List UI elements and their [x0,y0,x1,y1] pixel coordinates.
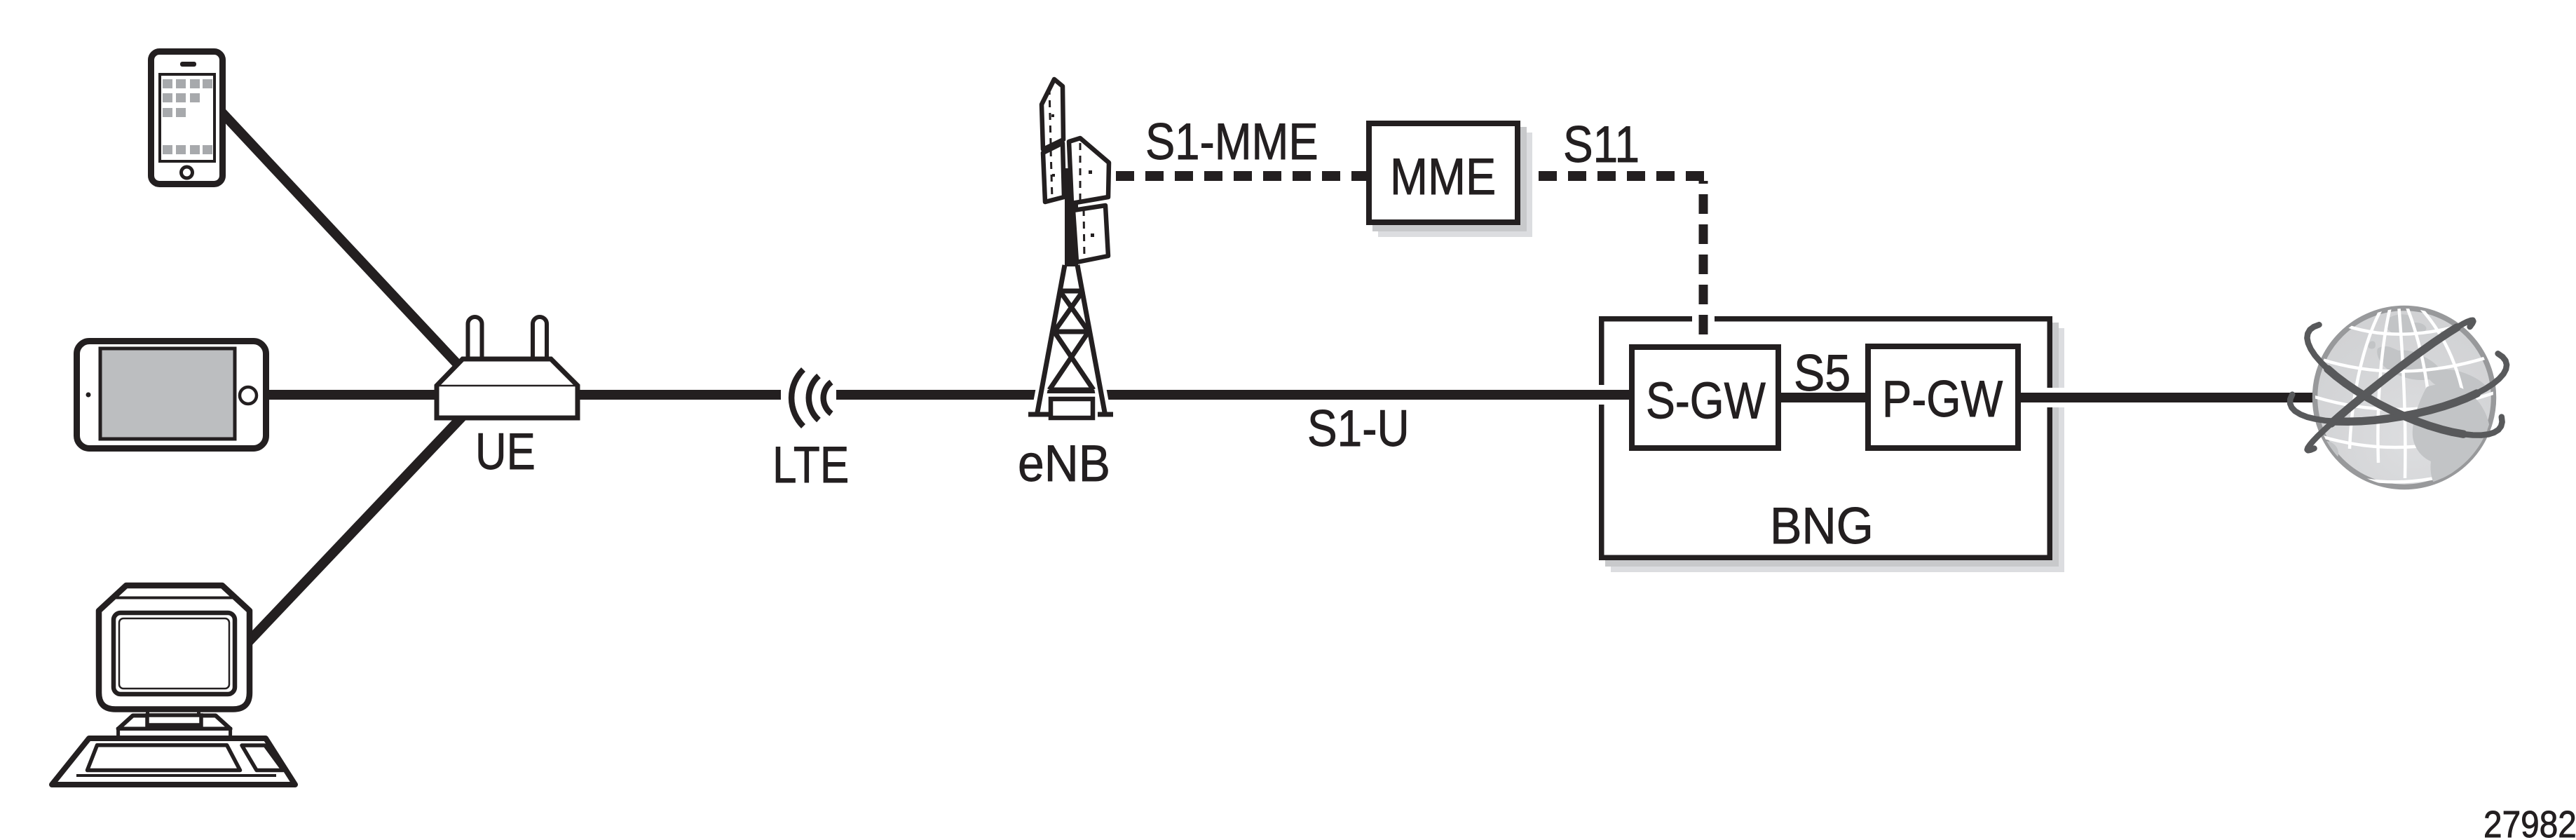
S1-MME dashed wire [1116,171,1366,181]
svg-text:S5: S5 [1794,344,1851,402]
antennas [468,317,482,366]
smartphone [151,52,223,184]
panel upper-left [1042,79,1063,149]
speaker [180,62,196,67]
tablet [77,341,266,449]
home button [240,387,257,404]
white casing where S11 dash crosses BNG top border [1692,311,1715,327]
svg-text:S-GW: S-GW [1646,372,1766,430]
X braces [1060,291,1089,332]
svg-text:UE: UE [475,424,536,480]
MME box [1369,123,1518,222]
svg-text:27982: 27982 [2483,803,2576,840]
body [437,359,578,418]
eNB antenna panels [1042,79,1109,262]
svg-text:LTE: LTE [772,436,849,494]
app icons [163,79,212,154]
neck [146,708,149,716]
desktop computer [52,585,295,785]
LTE radio arcs [791,370,831,426]
screen double border [114,613,235,694]
svg-text:P-GW: P-GW [1882,370,2003,428]
svg-text:BNG: BNG [1770,498,1874,555]
svg-text:MME: MME [1390,147,1496,205]
panel centerline details [1049,88,1084,259]
screen [160,74,214,161]
wire phone to UE [214,104,491,400]
orbit swoosh thick middles [2328,327,2477,434]
key areas [88,745,240,771]
africa land over grid [2413,384,2490,496]
tablet screen [100,348,235,439]
white casings under tower [1028,265,1113,414]
pedestal skirt [118,716,231,729]
wire P-GW to globe [1998,393,2334,402]
wire S5 : S-GW to P-GW [1717,393,1928,402]
BNG box [1602,319,2050,558]
S11 dashed wire horizontal [1520,171,1708,181]
equipment box [1051,399,1093,418]
BNG box shadow [1611,328,2064,572]
svg-text:eNB: eNB [1018,434,1110,492]
keyboard [52,738,295,785]
panel upper-right [1069,138,1109,203]
home button [182,167,193,178]
orbit swooshes [2290,320,2507,451]
bevel crease [114,597,236,599]
land under grid: scandinavia / europe / asia [2317,314,2487,466]
svg-text:S1-MME: S1-MME [1145,113,1318,170]
sphere [2315,309,2494,487]
tower legs [1028,265,1113,414]
pedestal top [147,715,201,725]
UE router [437,317,578,418]
S-GW box [1632,347,1778,448]
panel lower-right [1073,205,1108,262]
panel lower-left [1043,143,1064,202]
tower mast [1065,168,1078,266]
rungs [1060,289,1083,294]
white casing where line crosses BNG right border [2043,388,2068,407]
eNB tower [1028,168,1113,424]
white casing where S1-U crosses BNG left border [1593,385,1607,405]
globe [2290,288,2507,496]
wire UE to LTE gap [561,390,781,400]
svg-text:S1-U: S1-U [1307,400,1410,457]
feet [1028,412,1064,417]
wire tablet to UE [259,390,456,400]
S11 dashed wire vertical [1699,181,1708,344]
monitor body with bevel top [99,585,250,710]
pedestal bar [118,729,231,739]
white grid [2315,288,2497,482]
MME box shadow [1378,133,1532,237]
camera dot [86,393,91,398]
wire S1-U : LTE gap to S-GW [836,390,1682,400]
P-GW box [1868,346,2018,448]
svg-text:S11: S11 [1563,116,1640,173]
wire computer to UE [245,394,484,645]
